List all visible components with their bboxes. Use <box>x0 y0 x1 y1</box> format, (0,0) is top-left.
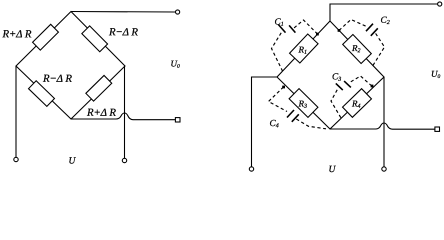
terminal bottom-left of left bridge <box>14 157 18 161</box>
wire: bottom vertex to output with hop over vertical wire <box>71 113 175 120</box>
terminal bottom-right of left bridge <box>122 158 126 162</box>
wire: left bridge top output to terminal <box>71 11 176 14</box>
capacitor C2 dashed branch top-right arm <box>338 20 385 66</box>
terminal top-right of left bridge <box>176 10 180 14</box>
svg-text:U0: U0 <box>170 59 180 70</box>
capacitor C1 dashed branch top-left arm <box>272 20 319 71</box>
resistor R+dR top-left (box) <box>33 24 59 50</box>
wire: left bridge diamond arms <box>16 12 125 120</box>
resistor R-dR bottom-left (box) <box>29 81 55 107</box>
terminal bottom-left of right bridge <box>249 167 253 171</box>
wire: top vertex up and right to terminal <box>330 4 438 21</box>
wire: bottom vertex to output with hop over vertical wire <box>330 123 435 129</box>
wire: left vertex left and down to terminal <box>252 77 278 167</box>
terminal output right of left bridge (square) <box>175 118 180 122</box>
svg-text:U0: U0 <box>431 69 441 80</box>
svg-text:R+Δ R: R+Δ R <box>86 107 116 119</box>
terminal bottom-right of right bridge <box>382 167 386 171</box>
svg-text:R+Δ R: R+Δ R <box>1 28 31 40</box>
capacitor C3 dashed branch bottom-right arm <box>331 76 373 118</box>
terminal output right of right bridge (square) <box>435 127 440 131</box>
resistor R1 box top-left arm <box>290 34 319 63</box>
svg-text:C2: C2 <box>380 16 389 26</box>
resistor R4 box bottom-right arm <box>343 89 372 118</box>
resistor R-dR top-right (box) <box>82 26 108 52</box>
svg-text:U: U <box>68 157 76 167</box>
wire: left vertex down to supply terminal <box>15 66 17 157</box>
resistor R2 box top-right arm <box>343 35 372 64</box>
svg-text:C1: C1 <box>274 18 283 28</box>
svg-text:C4: C4 <box>269 119 278 129</box>
capacitor C4 dashed branch bottom-left arm <box>269 86 327 129</box>
svg-text:R−Δ R: R−Δ R <box>108 26 138 38</box>
wire: right vertex down to supply terminal <box>124 66 126 158</box>
svg-text:U: U <box>328 165 336 175</box>
terminal top-right of right bridge <box>438 2 442 6</box>
wire: right bridge diamond arms <box>277 21 384 129</box>
resistor R3 box bottom-left arm <box>289 89 318 118</box>
svg-text:R−Δ R: R−Δ R <box>42 73 72 85</box>
svg-text:C3: C3 <box>332 72 341 82</box>
resistor R+dR bottom-right (box) <box>86 75 112 101</box>
wire: right vertex down to terminal <box>383 77 385 167</box>
